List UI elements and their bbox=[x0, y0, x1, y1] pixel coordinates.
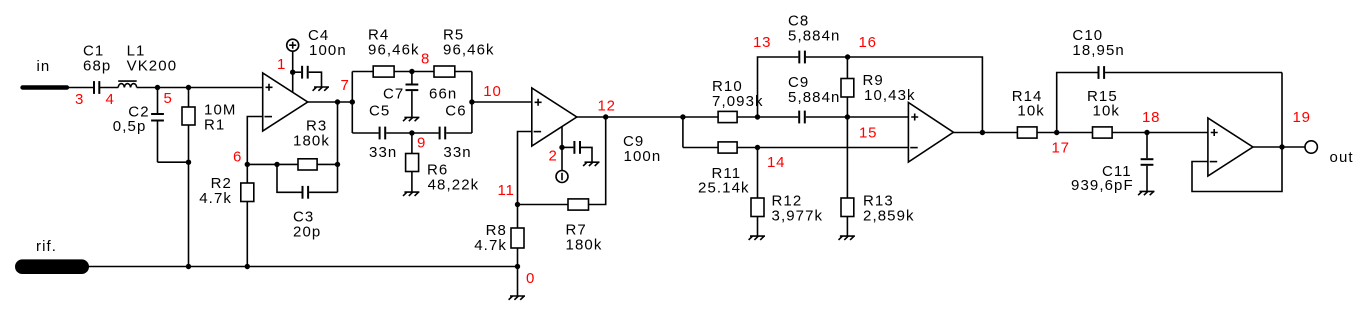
node 18 bbox=[1142, 109, 1160, 135]
svg-text:19: 19 bbox=[1293, 109, 1311, 126]
op-amp U2 power pin bbox=[561, 127, 563, 148]
resistor R8 bbox=[474, 205, 524, 267]
svg-text:12: 12 bbox=[598, 98, 616, 115]
svg-text:2: 2 bbox=[549, 148, 558, 165]
svg-text:3: 3 bbox=[75, 91, 84, 108]
svg-text:VK200: VK200 bbox=[127, 58, 178, 75]
node 19 bbox=[1279, 109, 1310, 150]
svg-text:13: 13 bbox=[753, 34, 771, 51]
svg-text:17: 17 bbox=[1052, 140, 1070, 157]
wire bbox=[67, 87, 93, 89]
svg-text:100n: 100n bbox=[624, 148, 662, 165]
node 7 bbox=[335, 77, 350, 105]
svg-text:4.7k: 4.7k bbox=[199, 190, 232, 207]
input terminal "in" bbox=[23, 58, 68, 88]
ground (R12) bbox=[749, 236, 765, 240]
resistor R13 bbox=[841, 117, 915, 236]
svg-text:33n: 33n bbox=[443, 144, 471, 161]
node 16 bbox=[845, 34, 877, 60]
twin-T left vertical bbox=[351, 72, 353, 134]
svg-text:0: 0 bbox=[526, 270, 535, 287]
svg-text:10k: 10k bbox=[1093, 103, 1121, 120]
capacitor C11 bbox=[1071, 133, 1153, 195]
node 2 bbox=[549, 145, 565, 165]
wire node 12 down to R7 bbox=[589, 117, 606, 205]
op-amp U1 bbox=[263, 73, 308, 131]
svg-text:in: in bbox=[37, 58, 51, 75]
wire node 17 vertical bbox=[1057, 73, 1098, 133]
svg-text:939,6pF: 939,6pF bbox=[1071, 177, 1134, 194]
ground (node 0) bbox=[509, 296, 525, 300]
svg-text:180k: 180k bbox=[566, 237, 603, 254]
ground (C7) bbox=[403, 117, 419, 121]
svg-text:10: 10 bbox=[483, 83, 501, 100]
capacitor C4 bbox=[293, 27, 347, 87]
svg-text:C6: C6 bbox=[445, 103, 466, 120]
svg-text:15: 15 bbox=[859, 125, 877, 142]
node junction on R1 vertical bbox=[186, 160, 191, 165]
resistor R15 bbox=[1057, 88, 1208, 138]
feedback junction bbox=[980, 130, 985, 135]
svg-text:25.14k: 25.14k bbox=[698, 180, 750, 197]
node 14 junction bbox=[755, 145, 785, 171]
svg-text:66n: 66n bbox=[429, 86, 457, 103]
capacitor C2 bbox=[113, 88, 164, 163]
wire C2 bottom to R1 line bbox=[158, 161, 189, 163]
ground (R13) bbox=[839, 236, 855, 240]
node 0 bbox=[515, 264, 535, 287]
svg-text:8: 8 bbox=[421, 51, 430, 68]
node 1 bbox=[277, 56, 295, 75]
resistor R11 bbox=[683, 142, 909, 197]
resistor R2 bbox=[199, 164, 254, 266]
node 12 bbox=[598, 98, 616, 120]
svg-text:68p: 68p bbox=[83, 58, 111, 75]
svg-text:4.7k: 4.7k bbox=[474, 237, 507, 254]
node 17 bbox=[1052, 130, 1070, 157]
resistor R14 bbox=[1012, 88, 1057, 138]
bypass capacitor at node 2 bbox=[562, 141, 592, 162]
wire to op2 bbox=[472, 101, 532, 103]
reference terminal "rif." bbox=[15, 238, 89, 274]
wire op4 feedback bbox=[1192, 147, 1282, 192]
node 15 bbox=[845, 114, 878, 141]
wire node 15 to op3 plus bbox=[847, 116, 908, 118]
node 13 junction bbox=[753, 34, 771, 120]
wire op2 minus input bbox=[518, 132, 532, 205]
svg-text:100n: 100n bbox=[309, 42, 347, 59]
capacitor C1 bbox=[83, 43, 111, 94]
svg-text:96,46k: 96,46k bbox=[368, 42, 420, 59]
output terminal "out" bbox=[1305, 141, 1354, 166]
svg-text:16: 16 bbox=[859, 34, 877, 51]
svg-text:C7: C7 bbox=[383, 86, 404, 103]
junction node 12 line bbox=[680, 114, 685, 119]
resistor R9 bbox=[841, 57, 916, 117]
op-amp U1 power pin bbox=[292, 72, 294, 92]
op-amp U2 bbox=[532, 88, 577, 146]
svg-text:out: out bbox=[1330, 149, 1354, 166]
wire junction vertical bbox=[682, 117, 684, 148]
twin-T right vertical bbox=[471, 72, 473, 134]
svg-text:11: 11 bbox=[498, 182, 515, 199]
wire op2 output bbox=[577, 116, 683, 118]
capacitor C6 bbox=[412, 103, 472, 162]
svg-text:96,46k: 96,46k bbox=[443, 42, 495, 59]
svg-text:48,22k: 48,22k bbox=[428, 177, 480, 194]
wire node 13 vertical bbox=[758, 57, 799, 117]
inductor L1 bbox=[118, 43, 177, 88]
svg-text:6: 6 bbox=[233, 149, 242, 166]
svg-text:10k: 10k bbox=[1017, 103, 1045, 120]
node 10 bbox=[469, 83, 501, 105]
svg-text:7: 7 bbox=[341, 77, 350, 94]
capacitor C9 (5,884n) bbox=[758, 74, 848, 123]
ground (R6) bbox=[403, 192, 419, 196]
wire op4 output bbox=[1253, 146, 1305, 148]
node 11 bbox=[498, 182, 521, 207]
negative supply symbol bbox=[556, 147, 568, 182]
svg-text:0,5p: 0,5p bbox=[113, 118, 147, 135]
resistor R3 bbox=[293, 118, 340, 171]
svg-text:9: 9 bbox=[417, 135, 426, 152]
node 9 bbox=[409, 130, 426, 151]
capacitor C7 bbox=[383, 72, 457, 118]
svg-text:33n: 33n bbox=[369, 144, 397, 161]
svg-text:18: 18 bbox=[1142, 109, 1160, 126]
capacitor C3 bbox=[277, 164, 338, 240]
capacitor C8 bbox=[788, 13, 848, 64]
resistor R1 bbox=[182, 88, 236, 267]
positive supply symbol bbox=[287, 39, 299, 72]
ground (C11) bbox=[1138, 191, 1154, 195]
capacitor C10 bbox=[1072, 27, 1282, 79]
resistor R12 bbox=[751, 148, 823, 237]
label C9 100n bbox=[623, 133, 661, 165]
wire C10 down to node 19 bbox=[1281, 73, 1283, 148]
resistor R7 bbox=[518, 199, 603, 254]
node 6 bbox=[233, 149, 250, 168]
node 6 feedback line bbox=[247, 163, 298, 165]
resistor R4 bbox=[352, 27, 419, 78]
svg-text:2,859k: 2,859k bbox=[863, 208, 915, 225]
node junction C3 left bbox=[274, 162, 279, 167]
wire feedback top bbox=[848, 57, 983, 133]
wire bbox=[137, 87, 263, 89]
rail junction R1 bbox=[186, 264, 191, 269]
op-amp U3 bbox=[908, 103, 953, 163]
node 8 bbox=[409, 51, 430, 75]
op-amp U4 bbox=[1208, 118, 1253, 176]
svg-text:20p: 20p bbox=[293, 224, 321, 241]
twin-T bottom wire bbox=[352, 132, 378, 134]
svg-text:180k: 180k bbox=[293, 133, 330, 150]
svg-text:7,093k: 7,093k bbox=[712, 93, 764, 110]
svg-text:C5: C5 bbox=[369, 103, 390, 120]
resistor R5 bbox=[412, 27, 495, 78]
svg-text:5,884n: 5,884n bbox=[788, 89, 840, 106]
wire op1 output bbox=[308, 101, 353, 103]
svg-text:4: 4 bbox=[106, 91, 115, 108]
node junction twin-T left bbox=[350, 99, 355, 104]
wire node 0 to ground bbox=[517, 267, 519, 297]
wire feedback vertical bbox=[337, 102, 339, 192]
node 5 bbox=[155, 85, 173, 107]
svg-text:5,884n: 5,884n bbox=[788, 28, 840, 45]
wire minus input bbox=[247, 117, 262, 165]
capacitor C5 bbox=[369, 103, 412, 162]
svg-text:R1: R1 bbox=[204, 117, 225, 134]
ground (C4) bbox=[313, 87, 329, 91]
svg-text:5: 5 bbox=[164, 90, 173, 107]
svg-text:3,977k: 3,977k bbox=[772, 208, 824, 225]
ground (node 2 cap) bbox=[583, 162, 599, 166]
node junction R1 top bbox=[186, 85, 191, 90]
resistor R6 bbox=[406, 133, 480, 194]
rail junction R2 bbox=[245, 264, 250, 269]
bottom rail wire bbox=[85, 266, 518, 268]
svg-text:14: 14 bbox=[767, 154, 785, 171]
svg-text:1: 1 bbox=[277, 56, 286, 73]
wire bbox=[100, 87, 118, 89]
resistor R10 bbox=[683, 78, 764, 123]
svg-text:rif.: rif. bbox=[36, 238, 57, 255]
svg-text:18,95n: 18,95n bbox=[1072, 42, 1124, 59]
wire op3 output bbox=[953, 132, 1017, 134]
